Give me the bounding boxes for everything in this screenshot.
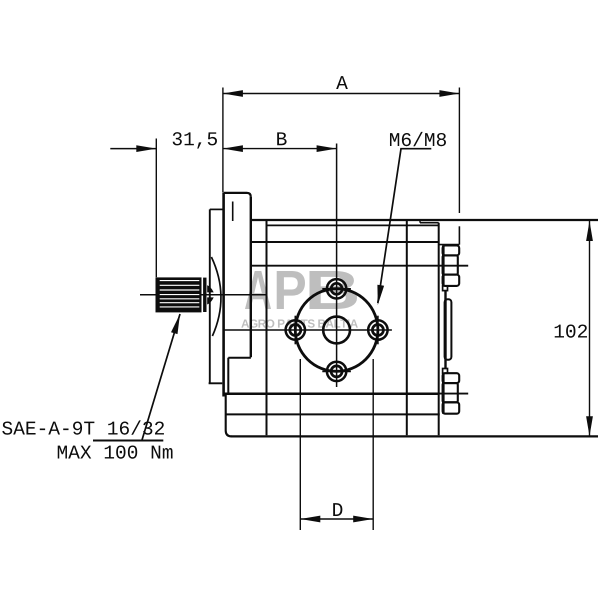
rear top step vertical xyxy=(419,220,421,223)
adapter plate top cap xyxy=(210,208,224,210)
flange face line xyxy=(222,193,225,397)
rear port nut top tab xyxy=(443,286,448,291)
arrowhead D left xyxy=(300,516,320,523)
splined shaft SAE-A-9T xyxy=(156,277,202,312)
arrowhead 102 bottom xyxy=(586,416,593,436)
label 31,5 xyxy=(173,132,217,149)
arrowhead D right xyxy=(353,516,373,523)
arrowhead leader SAE xyxy=(171,314,180,334)
watermark AGRO PARTS BALTIA xyxy=(241,319,358,327)
shaft centerline xyxy=(140,294,267,296)
circle horizontal centerline xyxy=(223,329,392,331)
circle vertical centerline / B extension xyxy=(336,144,338,388)
rear port nut bottom xyxy=(443,373,460,414)
flange plate inner stub xyxy=(232,202,234,222)
center hole xyxy=(323,317,350,344)
label B xyxy=(277,132,286,145)
underline SAE 16/32 xyxy=(93,440,163,442)
bolt hole left xyxy=(286,316,305,345)
flange step horizontal xyxy=(228,357,251,359)
leader SAE xyxy=(142,314,180,440)
adapter plate left edge xyxy=(209,209,211,383)
rear port nut bottom tab xyxy=(443,369,448,374)
dimension B line xyxy=(223,148,337,150)
leader M6/M8 xyxy=(378,149,432,303)
body top edge + 102 extension xyxy=(250,219,598,221)
bolt hole top xyxy=(322,279,351,298)
bolt hole bottom xyxy=(322,362,351,381)
dimension 102 line xyxy=(589,221,591,436)
arrowhead B left xyxy=(223,145,243,152)
label A xyxy=(336,76,348,89)
dimension D line xyxy=(300,518,373,520)
body bottom edge + 102 extension xyxy=(231,435,598,437)
flange plate right edge xyxy=(250,197,252,357)
arrowhead 102 top xyxy=(586,221,593,241)
dimension A line xyxy=(223,93,460,95)
bearing boss bulge curve xyxy=(211,257,221,336)
arrowhead B right xyxy=(317,145,337,152)
upper port centerline xyxy=(251,265,468,267)
body front lower edge with round corner xyxy=(226,394,232,437)
dimension A left extension xyxy=(222,88,224,193)
lower port centerline / step line xyxy=(223,392,439,395)
flange step vertical xyxy=(227,358,229,395)
label M6/M8 xyxy=(390,132,446,146)
rear cover top edge xyxy=(420,222,439,224)
rear strip edge xyxy=(444,291,446,369)
arrowhead 31,5 xyxy=(136,145,156,152)
shaft neck upper wedge xyxy=(207,285,214,292)
adapter plate bottom cap xyxy=(209,382,223,384)
watermark APB xyxy=(245,271,357,309)
rear port nut top xyxy=(443,246,460,286)
rear edge vertical xyxy=(438,223,440,436)
dimension A right extension xyxy=(458,88,460,214)
dimension D right extension xyxy=(372,359,374,530)
label MAX 100 Nm xyxy=(58,445,173,458)
body lower line xyxy=(226,413,439,415)
arrowhead A left xyxy=(223,90,243,97)
port flange circle xyxy=(295,289,378,372)
dimension 31,5 extension xyxy=(155,139,157,278)
flange plate top edge xyxy=(224,193,251,197)
label SAE-A-9T 16/32 xyxy=(2,420,164,434)
dimension D left extension xyxy=(299,359,301,530)
arrowhead leader M6/M8 xyxy=(377,285,384,305)
label 102 xyxy=(555,324,587,337)
top boss right edge xyxy=(458,226,460,244)
rear section vertical xyxy=(406,221,408,436)
label D xyxy=(333,503,342,516)
body top inner line xyxy=(267,224,439,226)
bolt hole right xyxy=(368,316,387,345)
body upper line xyxy=(250,241,439,243)
shaft neck lower wedge xyxy=(207,297,214,304)
dimension 31,5 arrow line xyxy=(110,148,156,150)
body front vertical xyxy=(266,221,268,436)
top boss bottom line xyxy=(439,244,460,246)
arrowhead A right xyxy=(439,90,459,97)
shaft end cap bar xyxy=(203,278,206,312)
rear slot bar xyxy=(445,299,452,360)
